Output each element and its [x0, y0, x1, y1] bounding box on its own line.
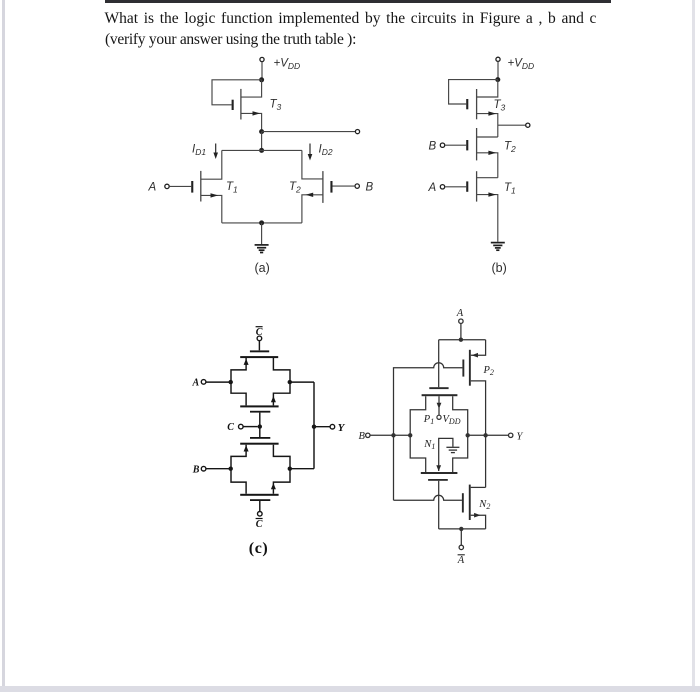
arrow N2 source (d) — [474, 513, 481, 518]
svg-text:Y: Y — [517, 432, 524, 443]
wire A rail (d) — [439, 339, 486, 341]
svg-text:A: A — [428, 182, 437, 194]
svg-text:B: B — [366, 181, 374, 193]
wire left lead bottom TG (c) — [231, 445, 246, 469]
svg-text:T3: T3 — [270, 99, 282, 113]
svg-text:N2: N2 — [478, 499, 490, 511]
svg-text:A: A — [457, 555, 465, 566]
input terminal B (b) — [440, 143, 466, 147]
wire gate top (c) — [258, 341, 260, 351]
wire P2 source lead to A rail (d) — [471, 340, 486, 356]
svg-text:Y: Y — [338, 422, 346, 434]
arrow left lead top transistor (c) — [244, 359, 249, 365]
top dark rule — [105, 0, 611, 3]
wire lower-left lead top NMOS (c) — [231, 382, 246, 405]
transistor T3 (a) — [232, 80, 262, 132]
node B to P1 N1 left (d) — [408, 433, 412, 437]
input terminal A (b) — [440, 185, 466, 189]
transistor NMOS bottom pass (c): channel bar — [240, 494, 278, 496]
input terminal B (d) — [366, 433, 411, 437]
svg-text:N1: N1 — [423, 439, 435, 451]
transistor PMOS bottom pass (c): channel bar — [240, 443, 278, 445]
wire right top lead bottom TG (c) — [273, 445, 290, 469]
node VDD junction (b) — [495, 77, 500, 82]
input terminal B (a) — [333, 184, 360, 188]
arrow left lead bottom TG (c) — [244, 445, 249, 451]
wire right top lead (c) — [273, 358, 290, 382]
transistor N2 (d): channel bar — [469, 485, 471, 520]
question text line 2 — [105, 31, 356, 49]
wire N1 left lead (d) — [410, 435, 426, 472]
input terminal B (c) — [201, 466, 229, 471]
node B junction (c) — [229, 467, 233, 471]
node right bottom TG (c) — [288, 467, 292, 471]
node P2 N2 output (d) — [483, 433, 487, 437]
wire left lead top transistor (c) — [231, 358, 246, 382]
wire output to drain rail (a) — [261, 132, 263, 151]
wire Y rail vertical (c) — [313, 382, 315, 469]
terminal Y (c) — [330, 424, 335, 429]
arrow right bottom lead bottom TG (c) — [271, 483, 276, 489]
node A-bar (d) — [459, 527, 463, 531]
wire A drop (d) — [460, 323, 462, 339]
svg-text:T2: T2 — [504, 140, 516, 154]
wire output rail right (d) — [468, 434, 509, 436]
terminal Y (d) — [509, 433, 513, 437]
arrow P2 source (d) — [472, 353, 479, 358]
wire A rail to P1 gate (d) — [438, 340, 440, 388]
transistor T2 (b) — [466, 128, 498, 178]
terminal VDD bulk P1 (d) — [437, 415, 441, 419]
wire T3 gate loop (a) — [212, 80, 262, 105]
svg-text:A: A — [192, 378, 200, 389]
svg-text:C: C — [256, 519, 263, 530]
wire N1 right lead (d) — [453, 435, 468, 472]
transistor N1 (d): gate bar — [428, 479, 448, 481]
transistor P2 (d): channel bar — [469, 350, 471, 386]
wire output tap (b) — [498, 124, 526, 126]
transistor NMOS top pass (c): channel bar — [240, 405, 278, 407]
transistor PMOS top pass (c): gate bar — [250, 350, 269, 352]
node C (c) — [258, 424, 262, 428]
wire P1 left lead (d) — [410, 396, 426, 435]
terminal output (b) — [526, 123, 530, 127]
svg-text:+VDD: +VDD — [274, 58, 301, 72]
svg-text:T1: T1 — [504, 182, 516, 196]
ground (a) — [255, 245, 269, 253]
svg-text:C: C — [256, 327, 263, 338]
wire bottom TG to Y rail (c) — [290, 468, 314, 470]
svg-text:A: A — [148, 182, 157, 194]
transistor NMOS top pass (c): gate bar — [250, 411, 270, 413]
wire top TG to Y rail (c) — [290, 381, 314, 383]
question text line 1 — [105, 10, 597, 28]
node Y (c) — [312, 425, 316, 429]
svg-text:(b): (b) — [492, 261, 507, 275]
wire T3 gate loop (b) — [449, 80, 498, 104]
transistor P2 (d): gate bar — [462, 360, 464, 377]
node P1 N1 right (d) — [466, 433, 470, 437]
transistor T3 (b) — [466, 80, 498, 137]
wire P2 drain lead down (d) — [471, 381, 486, 488]
terminal C-bar top (c) — [257, 336, 262, 341]
wire right bottom lead (c) — [273, 382, 290, 405]
transistor P1 (d): gate bar — [429, 387, 448, 389]
wire A-bar rail (d) — [439, 528, 486, 530]
terminal A (d) — [459, 319, 463, 323]
transistor PMOS top pass (c): channel bar — [240, 356, 278, 358]
wire VDD drop (b) — [497, 62, 499, 80]
terminal +VDD (a) — [260, 57, 264, 61]
wire output to terminal (a) — [262, 131, 356, 133]
wire drain branch T2 (a) — [302, 150, 323, 179]
svg-text:T1: T1 — [226, 181, 238, 195]
wire lower-left lead bottom NMOS (c) — [231, 469, 246, 494]
node A rail (d) — [459, 338, 463, 342]
input terminal A (a) — [165, 184, 191, 188]
wire N2 gate lead with hump (d) — [394, 495, 462, 500]
transistor NMOS bottom pass (c): gate bar — [250, 499, 270, 501]
ground N1 bulk (d) — [446, 447, 459, 452]
svg-text:VDD: VDD — [443, 414, 461, 426]
bulk arrow N1 (d) — [436, 465, 441, 471]
transistor T1 (b) — [466, 171, 498, 242]
wire gate bottom (c) — [259, 501, 261, 512]
wire to ground (a) — [261, 223, 263, 244]
svg-text:ID1: ID1 — [192, 144, 206, 158]
svg-text:ID2: ID2 — [319, 144, 333, 158]
node right top TG (c) — [288, 380, 292, 384]
wire gate link to C node (c) — [259, 413, 261, 437]
svg-text:+VDD: +VDD — [508, 57, 535, 71]
input terminal C (c) — [239, 424, 258, 429]
svg-text:C: C — [227, 422, 234, 433]
bulk link N1 to ground (d) — [439, 438, 453, 471]
wire right bottom lead bottom TG (c) — [273, 469, 290, 494]
node ground junction (a) — [259, 220, 264, 225]
wire drain branch T1 (a) — [201, 150, 222, 179]
wire drain rail (a) — [222, 149, 302, 151]
transistor PMOS bottom pass (c): gate bar — [250, 437, 270, 439]
transistor N2 (d): gate bar — [462, 493, 464, 512]
input terminal A (c) — [201, 380, 229, 385]
node B to gates (d) — [391, 433, 395, 437]
arrow right bottom lead top TG (c) — [271, 396, 276, 402]
svg-text:B: B — [192, 464, 200, 475]
wire P2 gate lead with hump (d) — [394, 363, 463, 501]
svg-text:T2: T2 — [289, 181, 301, 195]
wire P1 right lead (d) — [453, 396, 468, 435]
node VDD junction (a) — [259, 77, 264, 82]
wire Y tap (c) — [314, 426, 330, 428]
transistor P1 (d): channel bar — [422, 394, 458, 396]
terminal A-bar (d) — [459, 545, 463, 549]
wire source rail (a) — [222, 222, 302, 224]
current arrow ID1 (a) — [213, 144, 218, 160]
current arrow ID2 (a) — [308, 144, 313, 161]
node output (a) — [259, 129, 264, 134]
transistor T2 (a) — [302, 171, 333, 223]
wire VDD drop (a) — [261, 62, 263, 80]
wire N2 source lead (d) — [471, 515, 486, 529]
wire N1 gate to A-bar rail (d) — [438, 481, 440, 529]
wire A-bar drop (d) — [460, 529, 462, 545]
svg-text:A: A — [456, 308, 464, 319]
node A junction (c) — [229, 380, 233, 384]
wire N2 drain lead (d) — [471, 486, 486, 488]
ground (b) — [491, 243, 505, 251]
svg-text:B: B — [429, 141, 437, 153]
transistor N1 (d): channel bar — [421, 472, 458, 474]
svg-text:T3: T3 — [494, 99, 506, 113]
transistor T1 (a) — [191, 171, 222, 223]
svg-text:B: B — [359, 431, 366, 442]
node drain rail (a) — [259, 148, 264, 153]
terminal C-bar bottom (c) — [258, 512, 263, 517]
svg-text:(c): (c) — [249, 540, 269, 557]
svg-text:P2: P2 — [483, 365, 494, 377]
bulk arrow P1 to VDD (d) — [437, 396, 442, 415]
svg-text:P1: P1 — [423, 414, 434, 426]
terminal +VDD (b) — [496, 57, 500, 61]
terminal output (a) — [355, 130, 359, 134]
svg-text:(a): (a) — [255, 261, 270, 275]
